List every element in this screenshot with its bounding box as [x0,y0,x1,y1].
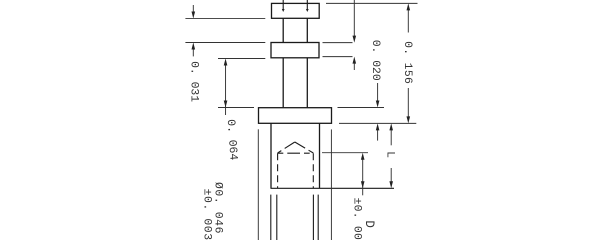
dim 0.031 upper arrowhead [192,11,196,18]
svg-text:L: L [383,151,395,158]
base flange [259,108,332,124]
flange F2 (second collar) [271,43,319,58]
dim L bottom arrowhead [389,181,393,188]
dim 0.020 (F2) upper arrowhead [353,36,357,43]
shaft segment between F1 and F2, right edge [306,18,308,42]
extension line: bottom of F2, right [323,56,353,58]
dim 0.156 upper line [407,10,409,33]
dim 0.020 (F2) upper arrow line [353,0,355,36]
body barrel right edge [319,123,321,188]
svg-text:±0. 005: ±0. 005 [351,198,363,240]
extension line: bottom of F1, left [185,17,265,19]
lower body line 1 [270,195,272,240]
dim 0.064 line [225,65,227,115]
dim 0.031 lower arrow line [192,49,194,56]
extension line: cone base, right [322,152,368,154]
dim 0.156 lower line [407,88,409,117]
svg-text:0. 156: 0. 156 [401,41,413,84]
svg-text:D: D [362,220,376,228]
dim D bottom arrowhead [361,181,365,188]
extension line: top of F2, right [323,42,353,44]
shank stub line right (into flange F1) [306,0,308,10]
extension line: bottom of base, right [339,122,416,124]
lower body line 4 [317,195,319,240]
step / hole-bottom line [271,187,395,189]
extension line: top of F1, right [326,2,418,4]
svg-text:0. 031: 0. 031 [187,61,199,102]
hidden hole cone base (dashed) [278,152,314,154]
shaft segment between F1 and F2, left edge [282,18,284,42]
dim 0.020 (base) upper arrowhead [376,101,380,108]
svg-text:±0. 003: ±0. 003 [201,189,213,240]
extension line: top of base, right [338,107,385,109]
hidden hole drill cone left slope (dashed) [278,142,295,153]
flange F1 (top head) [272,3,320,18]
dim 0.020 (F2) lower arrowhead [353,57,357,64]
shaft segment between F2 and base, right edge [306,58,308,108]
dim 0.020 (F2) lower arrow line [353,63,355,70]
extension line: top of base, left [218,107,254,109]
dim L upper line [390,130,392,145]
body barrel left edge [270,123,272,188]
dim 0.020 (base) lower arrow line [377,130,379,141]
dim L lower line [390,168,392,182]
extension line: top of F2, left [185,42,265,44]
hidden hole drill cone right slope (dashed) [295,142,314,153]
lower body line 2 [276,195,278,240]
hidden hole right wall (dashed) [312,153,314,188]
extension line vertical: base left edge down [257,129,259,240]
dim D depth line [362,159,364,195]
svg-text:0. 020: 0. 020 [369,40,381,81]
shaft segment between F2 and base, left edge [282,58,284,108]
dim D top arrowhead [361,153,365,160]
extension line vertical: base right edge down [330,129,332,240]
dim 0.020 (base) leader line [377,83,379,101]
svg-text:0. 064: 0. 064 [224,119,239,161]
dim 0.031 lower arrowhead [192,43,196,50]
shank stub line left (into flange F1) [282,0,284,10]
dim 0.020 (base) lower arrowhead [376,123,380,130]
dim 0.156 bottom arrowhead [407,116,411,123]
dim 0.156 top arrowhead [407,3,411,10]
dim 0.064 top arrowhead [224,59,228,66]
hidden hole left wall (dashed) [277,153,279,188]
dim 0.031 upper arrow line [192,5,194,12]
dim L top arrowhead [389,123,393,130]
extension line: bottom of F2, left [218,58,265,60]
lower body line 3 [312,195,314,240]
dim 0.064 bottom arrowhead [224,101,228,108]
